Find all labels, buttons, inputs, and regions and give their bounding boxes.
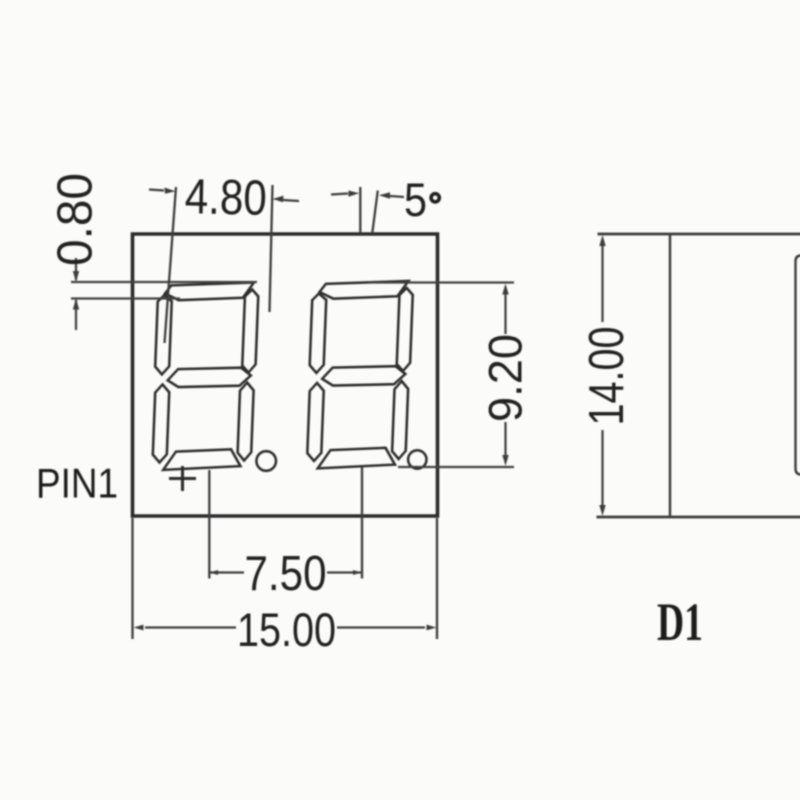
7-segment digit 2 xyxy=(306,281,414,469)
decimal point digit 2 xyxy=(408,450,426,468)
dim 9.20 extension line top xyxy=(368,281,514,283)
svg-text:14.00: 14.00 xyxy=(580,327,634,426)
dim 7.50 dimension line xyxy=(210,571,361,573)
svg-text:PIN1: PIN1 xyxy=(36,460,118,507)
dim 15.00 extension line left xyxy=(131,518,133,639)
angle 5 dimension left stub with arrow xyxy=(331,194,348,195)
dim 4.80 extension line right (slanted) xyxy=(270,185,273,312)
dim 9.20 dimension line xyxy=(504,294,506,456)
dim 4.80 dimension line right stub with arrow xyxy=(283,200,299,201)
dim 14.00 dimension line xyxy=(601,245,603,506)
angle 5 reference vertical line xyxy=(359,187,361,233)
svg-text:9.20: 9.20 xyxy=(479,334,532,422)
package outline side view bottom edge xyxy=(597,516,800,519)
dim 15.00 dimension line xyxy=(145,626,425,628)
dim 4.80 extension line left (slanted) xyxy=(165,187,177,343)
svg-text:7.50: 7.50 xyxy=(245,547,327,601)
dim 0.80 arrows xyxy=(73,271,79,310)
drop line digit 2 center xyxy=(361,467,363,579)
7-segment digit 1 xyxy=(151,282,259,470)
svg-text:D1: D1 xyxy=(657,592,703,652)
dim 4.80 dimension line left stub with arrow xyxy=(149,190,164,191)
svg-text:0.80: 0.80 xyxy=(48,173,103,266)
svg-text:5: 5 xyxy=(404,173,427,226)
svg-text:4.80: 4.80 xyxy=(184,169,267,226)
dim 7.50 arrows xyxy=(210,570,362,575)
package outline front view xyxy=(133,234,438,516)
dim 0.80 extension line lower xyxy=(71,297,180,299)
dim 15.00 extension line right xyxy=(436,518,438,639)
display window side profile xyxy=(796,256,800,475)
dim 9.20 arrows xyxy=(502,284,508,467)
angle 5 dimension right stub with arrow xyxy=(390,196,404,197)
dim 9.20 extension line bottom xyxy=(398,466,514,468)
dim 15.00 arrows xyxy=(134,625,437,631)
plus polarity marking xyxy=(169,466,196,491)
dim 0.80 dimension line xyxy=(75,258,77,330)
dim 14.00 arrows xyxy=(599,235,605,516)
package outline side view top edge xyxy=(598,233,800,236)
dim 0.80 extension line upper xyxy=(71,281,257,283)
drop line digit 1 center xyxy=(208,470,210,579)
decimal point digit 1 xyxy=(256,451,276,471)
angle 5 slanted line xyxy=(372,191,378,234)
degree symbol xyxy=(431,194,439,202)
svg-text:15.00: 15.00 xyxy=(237,604,336,657)
package outline side view left edge xyxy=(669,234,671,517)
